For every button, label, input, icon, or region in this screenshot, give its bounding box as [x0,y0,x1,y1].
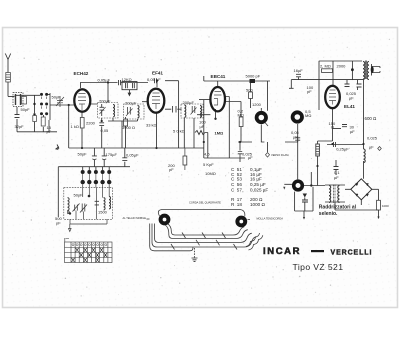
svg-text:pF: pF [47,129,52,134]
svg-text:500: 500 [246,87,253,92]
svg-text:33 kΩ: 33 kΩ [146,123,157,128]
svg-text:VERSO FILAM.: VERSO FILAM. [271,153,289,157]
svg-text:0,05: 0,05 [101,128,110,133]
svg-text:VERCELLI: VERCELLI [331,250,373,257]
svg-text:ECH42: ECH42 [74,71,89,76]
svg-text:EL41: EL41 [344,104,355,109]
svg-text:0,05 µF: 0,05 µF [147,77,161,82]
svg-text:1 kΩ: 1 kΩ [71,124,79,129]
svg-text:5 KpF: 5 KpF [203,162,214,167]
svg-text:MΩ: MΩ [305,113,311,118]
svg-text:selenio.: selenio. [319,211,338,217]
svg-text:50pF: 50pF [21,107,31,112]
svg-text:200µF: 200µF [125,101,137,106]
svg-text:3900 Ω: 3900 Ω [122,125,135,130]
svg-text:µF: µF [349,96,354,101]
svg-text:12KΩ: 12KΩ [122,77,132,82]
svg-text:10MΩ: 10MΩ [205,171,216,176]
svg-text:µF: µF [369,145,374,150]
svg-text:pF: pF [307,89,312,94]
svg-text:1500: 1500 [98,210,108,215]
svg-text:INCAR: INCAR [263,246,301,257]
svg-text:AL TELAIO MOBILE: AL TELAIO MOBILE [123,216,147,220]
svg-text:50pF: 50pF [74,193,84,198]
svg-text:0,05µF: 0,05µF [126,153,139,158]
svg-text:5 0 kΩ: 5 0 kΩ [173,129,185,134]
svg-text:EBC41: EBC41 [211,74,226,79]
svg-text:50pF: 50pF [78,152,88,157]
svg-text:pF: pF [56,221,61,226]
svg-text:5000 pF: 5000 pF [246,73,261,78]
svg-text:175µF: 175µF [106,152,118,157]
svg-text:32pF: 32pF [15,124,25,129]
svg-text:C570,025 µF: C570,025 µF [231,187,268,192]
svg-text:µF: µF [334,175,339,180]
svg-text:600 Ω: 600 Ω [365,116,378,121]
svg-text:2, MΩ: 2, MΩ [320,64,331,69]
svg-text:2000: 2000 [337,64,347,69]
svg-text:200µF: 200µF [99,98,111,103]
svg-text:1000: 1000 [382,204,389,208]
svg-text:Tipo VZ 521: Tipo VZ 521 [293,262,344,272]
svg-text:0,025: 0,025 [367,136,378,141]
svg-text:4,5: 4,5 [204,151,210,156]
svg-text:EF41: EF41 [152,71,163,76]
svg-text:MΩ: MΩ [238,113,244,118]
svg-text:µF: µF [248,155,253,160]
svg-text:1200: 1200 [252,102,262,107]
svg-text:50pF: 50pF [52,95,62,100]
svg-text:pF: pF [169,167,174,172]
svg-text:1MΩ: 1MΩ [215,130,225,135]
svg-text:Ω: Ω [331,125,334,130]
svg-text:200µF: 200µF [183,100,195,105]
svg-text:0,05µF: 0,05µF [98,77,111,82]
svg-text:2200: 2200 [86,121,96,126]
svg-text:16µF: 16µF [294,68,304,73]
svg-text:CORDA DEL QUADRANTE: CORDA DEL QUADRANTE [189,200,221,204]
svg-text:µF: µF [293,134,298,139]
svg-text:MOLLA TENDICORDA: MOLLA TENDICORDA [257,216,284,220]
svg-text:µF: µF [200,124,205,129]
svg-text:Raddrizzatori al: Raddrizzatori al [319,205,357,211]
svg-text:µF: µF [350,129,355,134]
svg-text:0,25µF: 0,25µF [336,147,349,152]
